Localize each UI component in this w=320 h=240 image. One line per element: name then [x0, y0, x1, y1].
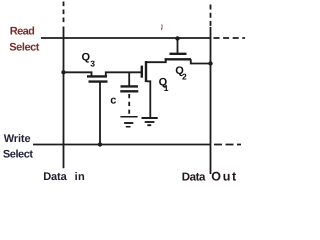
svg-text:Select: Select: [3, 149, 33, 161]
svg-text:c: c: [110, 95, 116, 107]
svg-text:3: 3: [90, 59, 95, 69]
svg-text:Data: Data: [182, 172, 206, 184]
svg-text:Select: Select: [9, 41, 39, 53]
svg-text:Q: Q: [82, 51, 91, 63]
svg-text:2: 2: [182, 72, 187, 82]
svg-text:in: in: [75, 171, 85, 183]
svg-text:Out: Out: [211, 170, 238, 184]
svg-text:Data: Data: [43, 171, 67, 183]
svg-text:1: 1: [164, 83, 169, 93]
svg-text:Read: Read: [10, 26, 35, 38]
svg-text:Write: Write: [4, 133, 31, 145]
